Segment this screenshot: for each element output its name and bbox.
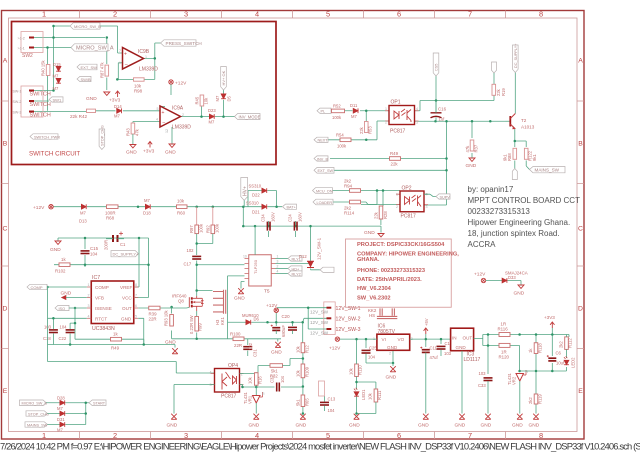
net flag MAINS_SW — [530, 167, 566, 173]
svg-text:200R: 200R — [104, 240, 109, 250]
capacitor C31 102 — [243, 347, 252, 350]
wire y338.8 row — [172, 339, 281, 356]
wire op4 pin1 — [240, 366, 271, 374]
wire drain column — [197, 234, 245, 296]
capacitor C13 104 — [320, 402, 329, 405]
resistor R114 2k2 — [350, 200, 361, 204]
net flag EXT_SW — [77, 64, 97, 70]
net flag SW1 — [49, 97, 63, 102]
optocoupler OP2 — [396, 194, 428, 204]
svg-text:SW-1: SW-1 — [13, 90, 22, 94]
diode D14 — [117, 108, 122, 113]
svg-text:PL: PL — [321, 110, 326, 114]
net flag PL — [317, 108, 331, 113]
resistor R93 10k — [170, 315, 174, 327]
svg-text:R100: R100 — [230, 332, 241, 337]
svg-text:D33: D33 — [508, 275, 516, 280]
svg-text:5: 5 — [135, 314, 137, 318]
gnd below IC6 — [392, 363, 394, 366]
capacitor C16 1uf — [431, 113, 442, 118]
junction dots — [365, 110, 368, 113]
svg-text:C20: C20 — [282, 314, 291, 319]
svg-text:D11: D11 — [350, 103, 358, 108]
svg-text:COMP: COMP — [95, 285, 109, 290]
svg-text:R116: R116 — [498, 327, 509, 332]
svg-text:C16: C16 — [438, 107, 447, 112]
net flag DC_SUPPLY+ vertical — [513, 45, 519, 73]
svg-text:10k: 10k — [177, 199, 185, 204]
wire R37 branch — [471, 121, 473, 157]
electrolytic C1 — [113, 235, 118, 242]
svg-text:3: 3 — [416, 121, 418, 125]
wire IC9A minus input — [133, 122, 160, 123]
net flag B vertical small below R88 — [512, 169, 517, 180]
svg-text:10k: 10k — [296, 369, 301, 377]
capacitor C32 104 — [277, 383, 280, 392]
LED1 — [354, 388, 359, 396]
resistor R65 5k1 — [301, 395, 305, 407]
svg-text:PC817: PC817 — [221, 394, 237, 400]
svg-text:GND: GND — [121, 317, 132, 322]
svg-text:1k: 1k — [61, 257, 66, 262]
svg-text:12V_SW: 12V_SW — [310, 320, 329, 325]
svg-text:22R: 22R — [149, 317, 157, 322]
diode D6 MUR610 — [246, 320, 251, 325]
gnd symbol — [104, 92, 110, 95]
svg-text:KK1: KK1 — [220, 316, 225, 325]
net flag INV_MODE — [235, 114, 261, 120]
svg-text:GND: GND — [165, 150, 176, 156]
svg-text:C24: C24 — [288, 214, 293, 222]
net flag COMP — [27, 284, 47, 289]
svg-text:4: 4 — [255, 431, 259, 440]
svg-text:100k: 100k — [337, 144, 347, 149]
svg-text:104: 104 — [328, 408, 336, 413]
gnd below R37 — [469, 158, 475, 161]
gnd below D33 — [518, 285, 524, 288]
svg-text:22k: 22k — [374, 211, 379, 219]
svg-text:00233273315313: 00233273315313 — [468, 207, 531, 216]
resistor R102 1k — [59, 263, 70, 267]
resistor R60 10k — [177, 205, 188, 209]
svg-text:2: 2 — [113, 431, 117, 440]
gnd below IC9A — [169, 144, 175, 147]
svg-text:OP2: OP2 — [402, 186, 412, 192]
capacitor C15 104 — [81, 251, 90, 254]
svg-text:2: 2 — [182, 113, 184, 117]
wire R49 row — [48, 345, 176, 348]
svg-text:C25: C25 — [369, 346, 377, 351]
heatsink KK2 — [377, 308, 397, 318]
svg-text:100k: 100k — [199, 223, 204, 233]
svg-text:9k1: 9k1 — [532, 154, 537, 161]
+12V circle — [481, 278, 485, 282]
svg-text:GND: GND — [387, 345, 398, 350]
resistor R19 22k — [492, 84, 496, 95]
wire IC9A below gnd — [160, 107, 172, 144]
wire sw2 pin1 net — [34, 48, 72, 65]
svg-text:M7: M7 — [114, 114, 120, 119]
svg-text:R118: R118 — [538, 343, 543, 353]
svg-text:D: D — [3, 306, 8, 313]
+5V arrow — [424, 328, 428, 334]
net flag MICRO_SW_A — [71, 44, 108, 51]
svg-text:103: 103 — [444, 351, 452, 356]
svg-text:GND: GND — [271, 350, 282, 356]
svg-text:R: R — [262, 392, 265, 396]
svg-text:+5V: +5V — [424, 318, 429, 326]
wire op1 input row — [323, 111, 389, 122]
svg-text:LED1: LED1 — [361, 389, 366, 400]
svg-text:>1-1: >1-1 — [18, 47, 25, 51]
svg-text:E: E — [578, 388, 583, 395]
TL431 VR1 — [255, 387, 257, 395]
svg-text:M7: M7 — [215, 95, 220, 101]
diode D5 — [221, 94, 226, 99]
mosfet Q8 IRF640 — [188, 297, 190, 307]
svg-text:R119: R119 — [538, 394, 543, 404]
svg-text:5: 5 — [157, 107, 159, 111]
wire LOADER row y202 — [330, 202, 400, 205]
resistor R119 2k2 — [534, 394, 538, 404]
svg-text:M7: M7 — [209, 120, 215, 125]
+12V supply circle — [169, 80, 173, 84]
svg-text:3: 3 — [88, 304, 90, 308]
svg-text:10k: 10k — [349, 367, 354, 375]
net flag STOP_CHG vertical — [99, 129, 105, 150]
svg-text:22k: 22k — [391, 162, 399, 167]
svg-text:VR2: VR2 — [512, 376, 517, 385]
svg-text:GND: GND — [481, 423, 492, 429]
svg-text:LD1117: LD1117 — [464, 357, 481, 363]
svg-text:103: 103 — [479, 371, 487, 376]
frame column numbers bottom — [42, 431, 543, 440]
svg-text:UC3843N: UC3843N — [92, 326, 115, 332]
net flag PRESS_SWITCH — [161, 40, 197, 46]
wire IC9B output to press_switch — [144, 43, 161, 58]
svg-text:−: − — [162, 121, 165, 127]
svg-text:SWITCH: SWITCH — [30, 102, 51, 108]
connector SW2 — [21, 32, 43, 53]
svg-text:RTCT: RTCT — [95, 317, 107, 322]
diode D22 SS310 — [262, 188, 267, 193]
svg-text:104: 104 — [280, 375, 285, 383]
svg-text:6: 6 — [135, 304, 137, 308]
IC3 out rail — [474, 328, 569, 374]
wire op4 pin3 to gnd — [174, 385, 215, 414]
VO rail to the right — [410, 334, 451, 347]
svg-text:2: 2 — [277, 265, 279, 269]
svg-text:R12: R12 — [305, 345, 310, 353]
net flag STOP_CHG in — [26, 411, 48, 416]
resistor R118 1k — [534, 343, 538, 354]
wire CS flag down — [435, 76, 437, 101]
svg-text:1: 1 — [396, 193, 398, 197]
svg-text:TLP250: TLP250 — [253, 259, 258, 274]
wire vref rail y238 — [58, 238, 139, 287]
svg-text:D12: D12 — [299, 254, 307, 259]
svg-text:3: 3 — [426, 205, 428, 209]
svg-text:GND: GND — [514, 291, 525, 297]
resistor R68 100R — [107, 205, 119, 209]
svg-text:100k: 100k — [332, 115, 342, 120]
svg-text:MPPT CONTROL BOARD CCT: MPPT CONTROL BOARD CCT — [468, 196, 581, 205]
svg-text:M7: M7 — [53, 74, 59, 79]
svg-text:SW-2: SW-2 — [13, 100, 22, 104]
svg-text:10k: 10k — [204, 97, 209, 105]
svg-text:100k: 100k — [215, 223, 220, 233]
svg-text:MCU_ON: MCU_ON — [316, 189, 333, 193]
+3V3 arrow — [550, 322, 554, 328]
heatsink H3 KK1 — [213, 290, 226, 314]
svg-text:R19: R19 — [501, 88, 506, 96]
svg-text:INV_B: INV_B — [317, 157, 328, 161]
svg-text:EXT_SW: EXT_SW — [81, 65, 98, 70]
svg-text:Q8: Q8 — [178, 299, 184, 304]
svg-text:PROJECT: DSPIC33CK/16GS504: PROJECT: DSPIC33CK/16GS504 — [357, 242, 445, 248]
IC7 box — [91, 281, 134, 324]
svg-text:R68: R68 — [106, 216, 115, 221]
wires — [46, 403, 89, 425]
svg-text:STOP_CHG: STOP_CHG — [28, 412, 49, 416]
diode D16 — [56, 78, 61, 83]
net flag HV+OK vertical — [221, 67, 227, 91]
svg-text:GHANA.: GHANA. — [357, 257, 380, 263]
svg-text:0.22R 5W: 0.22R 5W — [189, 315, 194, 334]
net flag DC_SUPPLY+ horizontal — [111, 251, 139, 257]
svg-text:IC9A: IC9A — [172, 106, 184, 112]
frame row letters right — [578, 58, 583, 396]
svg-text:C6: C6 — [556, 351, 562, 356]
svg-text:+: + — [162, 110, 165, 116]
svg-text:+3V3: +3V3 — [109, 98, 121, 104]
svg-text:T5: T5 — [264, 289, 270, 295]
svg-text:VCC: VCC — [122, 296, 132, 301]
diode D33 SMAJ24CA — [502, 278, 507, 283]
resistor R43 47k — [131, 123, 135, 134]
svg-text:B: B — [3, 141, 8, 148]
svg-text:Hipower Engineering Ghana.: Hipower Engineering Ghana. — [468, 218, 571, 227]
svg-text:12V_SW: 12V_SW — [310, 331, 329, 336]
svg-text:D5: D5 — [227, 95, 232, 101]
svg-text:GND: GND — [167, 423, 178, 429]
resistor R12 10k — [301, 343, 305, 353]
capacitor C22 104 — [66, 330, 75, 333]
wire y322.25 rail — [228, 276, 327, 343]
svg-text:104: 104 — [60, 325, 68, 330]
net flag MICRO_SW_B — [70, 23, 100, 29]
svg-text:R120: R120 — [499, 355, 510, 360]
wire IC9B minus input feedback — [117, 58, 155, 79]
resistor R97 100k — [197, 207, 213, 225]
svg-text:EXT_SW: EXT_SW — [318, 169, 334, 173]
net flag CS vertical — [433, 53, 439, 76]
resistor R28 22k vertical — [379, 206, 383, 219]
net flag NEXT — [314, 137, 328, 142]
wire main rail y207 — [53, 191, 282, 227]
svg-text:D21: D21 — [252, 210, 260, 215]
net flag LOADER — [313, 199, 333, 205]
+12V circle feed — [335, 337, 339, 341]
T5 pin wire to drain node — [228, 276, 245, 289]
svg-text:160V: 160V — [271, 212, 276, 222]
svg-text:HV+: HV+ — [242, 186, 248, 196]
gnd below R43 — [130, 145, 136, 148]
svg-text:GND: GND — [234, 296, 245, 302]
wire GLV_ON row y190.5 — [330, 191, 400, 207]
svg-text:GND: GND — [296, 423, 307, 429]
svg-text:HS: HS — [369, 313, 375, 318]
svg-text:R60: R60 — [177, 211, 186, 216]
svg-text:M7: M7 — [144, 198, 150, 203]
svg-text:MAINS_SW: MAINS_SW — [535, 168, 560, 173]
diode D32 — [60, 422, 65, 427]
resistor R16 10k — [254, 373, 258, 386]
svg-text:1k: 1k — [113, 332, 118, 337]
wire IC9A output row — [181, 90, 235, 117]
wire gate junction R93 — [170, 306, 173, 309]
svg-text:M7: M7 — [53, 86, 59, 91]
svg-text:VFB: VFB — [95, 296, 104, 301]
svg-text:12V_SW-3: 12V_SW-3 — [336, 327, 361, 333]
svg-text:R110: R110 — [358, 365, 363, 375]
resistor R116 1R — [499, 333, 510, 337]
net flag GLV_ON — [313, 188, 333, 194]
svg-text:R53: R53 — [368, 126, 373, 134]
svg-text:2k2: 2k2 — [528, 397, 533, 404]
wire R54 row — [328, 121, 390, 140]
TL431 VR2 — [518, 370, 521, 373]
svg-text:MAINS_SW: MAINS_SW — [27, 423, 48, 427]
svg-text:D31: D31 — [57, 417, 65, 422]
svg-text:2: 2 — [396, 205, 398, 209]
svg-text:GND: GND — [126, 150, 137, 156]
svg-text:PRESS_SWITCH: PRESS_SWITCH — [166, 41, 202, 46]
diode D11 — [353, 108, 358, 113]
svg-text:D13: D13 — [79, 219, 87, 224]
svg-text:3: 3 — [184, 431, 188, 440]
svg-text:LOADER: LOADER — [317, 201, 333, 205]
resistor R32 5k1 — [270, 364, 283, 368]
svg-text:DATE: 25th/APRIL/2023.: DATE: 25th/APRIL/2023. — [357, 277, 422, 283]
svg-text:+12V: +12V — [33, 205, 45, 211]
wire sw2 pin2 net — [34, 37, 106, 39]
gnd X right of C31 — [275, 342, 281, 348]
svg-text:IC9B: IC9B — [138, 49, 150, 55]
svg-text:7: 7 — [468, 431, 472, 440]
svg-text:5k1: 5k1 — [296, 399, 301, 406]
net flag BAT+ — [283, 204, 297, 209]
net flag SWITCH_PWR — [30, 134, 58, 139]
junction dots — [84, 237, 87, 240]
+12V circle above C20 — [274, 308, 278, 312]
gnd X — [172, 348, 178, 354]
svg-text:ACCRA: ACCRA — [468, 240, 497, 249]
wire ref row y371 — [520, 354, 567, 414]
svg-text:R111: R111 — [377, 390, 382, 400]
svg-text:INV_MODE: INV_MODE — [239, 114, 261, 119]
resistor R98 10k — [134, 78, 145, 81]
svg-text:2k2: 2k2 — [559, 341, 564, 348]
svg-text:CS5: CS5 — [435, 64, 439, 71]
svg-text:22k: 22k — [359, 126, 364, 134]
wire op1 pin3 row to T2 base — [415, 120, 506, 122]
connector SWITCH — [21, 86, 43, 117]
svg-text:R43: R43 — [126, 128, 131, 136]
IC3 LD1117 — [451, 328, 474, 351]
capacitor C34 — [267, 222, 270, 231]
resistor R111 10k — [374, 389, 378, 402]
wire switch row — [34, 76, 160, 112]
svg-text:1: 1 — [88, 283, 90, 287]
svg-text:10k: 10k — [368, 392, 373, 400]
svg-text:C17: C17 — [184, 262, 192, 267]
svg-text:GND: GND — [86, 96, 97, 102]
svg-text:SWITCH CIRCUIT: SWITCH CIRCUIT — [29, 151, 80, 158]
svg-text:IC7: IC7 — [92, 275, 100, 281]
svg-text:R87 47k: R87 47k — [100, 61, 105, 78]
gnd below IC3 — [461, 351, 463, 414]
resistor R54 100k — [340, 138, 351, 142]
right column x302.9 — [302, 353, 304, 414]
svg-text:D14: D14 — [114, 104, 122, 109]
wires pin1 pin3 — [277, 308, 327, 329]
svg-text:2: 2 — [88, 294, 90, 298]
svg-text:SW2: SW2 — [22, 53, 33, 59]
svg-text:LM339D: LM339D — [172, 124, 191, 130]
svg-text:1: 1 — [385, 107, 387, 111]
svg-text:GND: GND — [456, 345, 467, 350]
diode D13 — [81, 204, 86, 209]
svg-text:R97: R97 — [189, 225, 194, 233]
svg-text:B: B — [578, 141, 583, 148]
wire R49 row y158 — [330, 121, 447, 205]
resistor R112 2k2 — [565, 337, 569, 350]
svg-text:OP4: OP4 — [228, 363, 238, 369]
svg-text:D15: D15 — [53, 62, 61, 67]
svg-text:OUT: OUT — [463, 336, 473, 341]
+3V3 arrow — [115, 91, 119, 97]
svg-text:47uf: 47uf — [430, 355, 439, 360]
svg-text:C33: C33 — [478, 383, 486, 388]
capacitor C17 102 — [192, 256, 201, 259]
svg-text:C: C — [3, 226, 8, 233]
svg-text:D28: D28 — [57, 396, 65, 401]
svg-text:+12V: +12V — [175, 81, 187, 87]
svg-text:C34: C34 — [261, 214, 266, 222]
svg-text:R49: R49 — [111, 346, 120, 351]
svg-text:R98: R98 — [134, 88, 143, 93]
svg-text:VO: VO — [398, 337, 405, 342]
svg-text:DC_SUPPLY+: DC_SUPPLY+ — [514, 43, 518, 68]
svg-text:4: 4 — [119, 61, 121, 65]
svg-text:SUPV: SUPV — [440, 195, 451, 199]
wire DC_SUPPLY down to T2 collector — [514, 73, 516, 114]
svg-text:8: 8 — [135, 283, 137, 287]
svg-text:C32: C32 — [270, 375, 275, 383]
svg-text:7: 7 — [135, 294, 137, 298]
svg-text:T2: T2 — [521, 118, 527, 123]
svg-text:2: 2 — [389, 352, 391, 356]
svg-text:+3V3: +3V3 — [544, 315, 555, 320]
svg-text:12V_SW-2: 12V_SW-2 — [336, 317, 361, 323]
frame column numbers top — [42, 10, 543, 19]
svg-text:GND: GND — [364, 230, 375, 236]
svg-text:GND: GND — [418, 423, 429, 429]
wire gnd pin5 down — [138, 318, 144, 344]
svg-text:SW_V6.2302: SW_V6.2302 — [357, 296, 391, 302]
resistor R110 10k — [355, 364, 359, 377]
